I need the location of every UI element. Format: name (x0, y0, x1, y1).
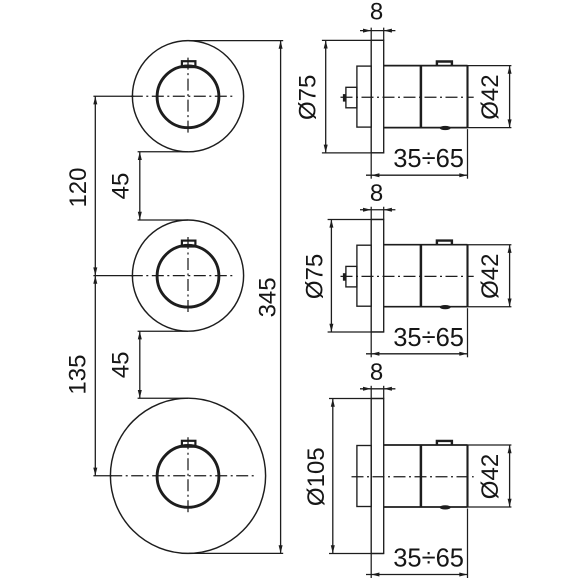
svg-text:8: 8 (370, 180, 383, 207)
svg-text:Ø75: Ø75 (302, 254, 329, 299)
svg-text:Ø42: Ø42 (477, 454, 504, 499)
svg-text:Ø42: Ø42 (477, 74, 504, 119)
svg-text:Ø75: Ø75 (295, 75, 322, 120)
svg-text:345: 345 (255, 277, 282, 317)
svg-text:Ø42: Ø42 (477, 254, 504, 299)
svg-text:135: 135 (65, 355, 92, 395)
svg-text:35÷65: 35÷65 (393, 145, 464, 173)
svg-text:8: 8 (370, 359, 383, 386)
svg-text:8: 8 (370, 0, 383, 26)
svg-text:35÷65: 35÷65 (393, 545, 464, 573)
svg-text:35÷65: 35÷65 (393, 324, 464, 352)
svg-text:120: 120 (65, 167, 92, 207)
svg-text:Ø105: Ø105 (303, 447, 330, 506)
svg-text:45: 45 (107, 351, 134, 378)
svg-text:45: 45 (107, 173, 134, 200)
